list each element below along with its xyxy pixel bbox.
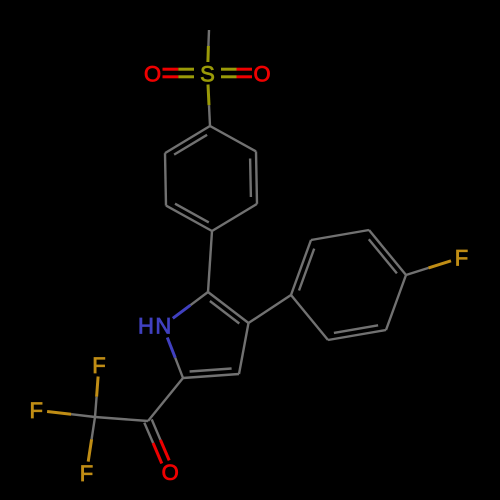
svg-text:N: N <box>155 314 171 339</box>
svg-text:O: O <box>253 62 270 87</box>
svg-text:F: F <box>29 398 42 423</box>
benzene2 edge BR-BL <box>328 330 386 340</box>
double bond C=O <box>152 419 161 440</box>
svg-text:S: S <box>200 62 215 87</box>
bond C3-C4 <box>239 323 249 374</box>
double bond S=O left <box>178 68 194 71</box>
bond C-F left <box>71 414 95 417</box>
benzene1 edge BR-B <box>212 204 257 231</box>
bond S-C(aryl) <box>208 85 209 106</box>
bond C-F right <box>406 268 429 275</box>
double bond S=O right <box>221 68 237 71</box>
benzene2 edge P-BR <box>386 275 406 330</box>
bond N-C2 <box>167 338 175 358</box>
bond C-F top <box>95 397 97 417</box>
bond aryl1-C5 <box>208 231 212 292</box>
svg-text:F: F <box>455 246 468 271</box>
benzene1 edge B-BL <box>166 206 212 231</box>
bond C-F bottom <box>92 417 95 439</box>
benzene2 edge TL-TR <box>311 230 369 240</box>
bond CH3-S <box>207 30 210 46</box>
benzene2 edge BL-I <box>291 295 328 340</box>
benzene2 edge TR-P <box>369 230 406 275</box>
bond C(O)-CF3 <box>95 417 148 421</box>
benzene1 edge TL-T <box>165 126 210 153</box>
svg-text:H: H <box>138 314 154 339</box>
bond C5-N <box>190 292 208 305</box>
benzene1 edge BL-TL <box>165 153 166 206</box>
benzene2 edge I-TL <box>291 240 311 295</box>
benzene1 edge TR-BR <box>256 151 257 204</box>
bond C2=C3 <box>183 374 239 378</box>
benzene1 edge T-TR <box>210 126 256 151</box>
svg-text:O: O <box>144 62 161 87</box>
svg-text:F: F <box>80 461 93 486</box>
bond C4=C5 <box>208 292 249 323</box>
svg-text:F: F <box>92 353 105 378</box>
svg-text:O: O <box>162 460 179 485</box>
bond C4-aryl2 <box>249 295 292 323</box>
bond C2-C(O) <box>148 378 183 421</box>
